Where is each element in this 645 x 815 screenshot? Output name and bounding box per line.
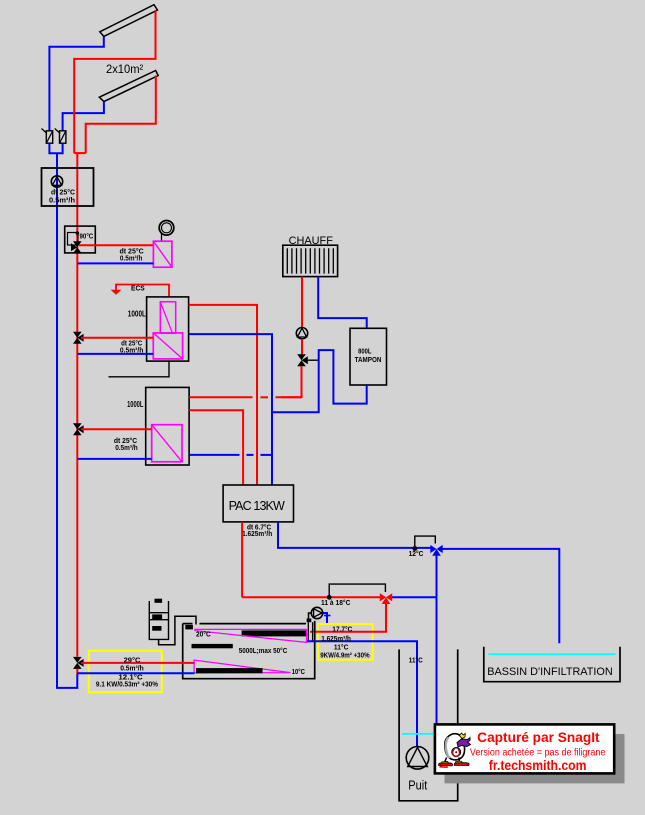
- puit water line cyan: [402, 733, 433, 735]
- ECS pipe red: [116, 285, 169, 297]
- wire blue 12.1C: [77, 672, 194, 674]
- valve V2: [55, 129, 66, 144]
- wire blue T1 return: [78, 353, 154, 355]
- svg-text:1000L: 1000L: [128, 310, 146, 319]
- wire blue pump discharge: [323, 613, 327, 623]
- valve V1: [42, 129, 53, 144]
- ECS shower symbol: [111, 290, 122, 295]
- expansion vessel: [159, 221, 174, 242]
- wire red T2 to PAC: [189, 410, 243, 485]
- bassin water line cyan: [488, 653, 615, 655]
- valve 3way T2: [73, 423, 84, 435]
- wire blue chauff to TAMPON top: [318, 277, 367, 329]
- T1 HX square magenta: [153, 333, 182, 359]
- solar panel 1: [100, 5, 158, 37]
- wire red 29C: [81, 662, 195, 664]
- svg-text:9.1 KW/0.53m² +30%: 9.1 KW/0.53m² +30%: [96, 680, 158, 689]
- wire blue T2 top return: [189, 454, 272, 456]
- wire red panel1: [74, 10, 155, 153]
- tank 5000L black bar 1: [242, 630, 307, 636]
- tank 5000L upper coil magenta: [195, 629, 307, 642]
- tank T2 1000L: [146, 387, 189, 465]
- tank 5000L left port mark: [185, 625, 193, 630]
- svg-text:20°C: 20°C: [196, 630, 211, 639]
- sensor 12C bracket: [412, 536, 435, 551]
- wire red panel2: [86, 76, 156, 154]
- svg-text:Puit: Puit: [408, 779, 427, 793]
- wire red chauff below pump: [301, 339, 303, 355]
- wire red T1 to PAC drop: [189, 305, 257, 485]
- pump chauff: [296, 328, 307, 339]
- valve 3way blue 12C: [430, 545, 442, 556]
- radiator CHAUFF: [283, 245, 338, 276]
- valve 3way chauff: [297, 354, 308, 366]
- sensor 11a18C bracket: [327, 584, 386, 600]
- wire blue tank to puit 11C: [307, 641, 417, 746]
- snagit watermark box: [435, 724, 614, 773]
- wire blue T2 return: [78, 458, 152, 460]
- svg-text:800L: 800L: [358, 346, 372, 355]
- svg-text:PAC 13KW: PAC 13KW: [229, 499, 285, 513]
- wire red 90C to HX1: [79, 244, 153, 246]
- wire red PAC to valve: [242, 596, 380, 598]
- wire blue valve out right: [392, 596, 437, 598]
- svg-text:12°C: 12°C: [409, 550, 424, 558]
- yellow box left: [89, 651, 162, 692]
- heat exchanger HX1: [153, 241, 172, 267]
- valve 3way bottom left: [73, 657, 84, 669]
- svg-text:dt 25°C: dt 25°C: [51, 189, 75, 197]
- buffer mark 2: [152, 614, 162, 619]
- wire red T2 to chauff circuit: [189, 396, 302, 398]
- wire red join: [74, 152, 86, 154]
- buffer component container: [149, 601, 168, 639]
- pump suction pipe black: [307, 613, 313, 642]
- wire blue PAC in down: [278, 522, 431, 548]
- wire red solar supply main drop: [76, 153, 78, 657]
- svg-text:11 à 18°C: 11 à 18°C: [321, 599, 350, 607]
- valve 3way 90C: [71, 231, 82, 253]
- 90C inner rect: [68, 233, 79, 246]
- solar pump P1: [51, 176, 62, 187]
- wire red PAC out down: [241, 522, 243, 597]
- yellow box right: [318, 624, 373, 660]
- buffer pipe to tank: [159, 616, 196, 645]
- buffer mark 1: [155, 599, 163, 603]
- tank 5000L lower coil magenta: [194, 660, 290, 673]
- svg-text:1000L: 1000L: [127, 400, 143, 409]
- tank 5000L black bar 3: [196, 668, 263, 673]
- svg-text:5000L;max 50°C: 5000L;max 50°C: [239, 646, 288, 655]
- wire red chauff supply: [301, 277, 303, 328]
- wire red chauff return down: [282, 366, 302, 397]
- svg-text:fr.techsmith.com: fr.techsmith.com: [489, 757, 587, 773]
- T1 drain pipe: [109, 361, 170, 377]
- bassin d'infiltration container: [484, 647, 620, 682]
- solar panel 2: [99, 71, 158, 102]
- 90C control box: [65, 226, 96, 253]
- svg-text:1.625m³/h: 1.625m³/h: [242, 531, 272, 538]
- svg-text:0.5m³/h: 0.5m³/h: [115, 445, 138, 452]
- wire blue HX1 return: [78, 262, 154, 264]
- wire blue solar return main drop: [57, 153, 77, 688]
- T2 HX square magenta: [152, 425, 182, 462]
- svg-text:dt 25°C: dt 25°C: [121, 340, 142, 348]
- valve 3way T1: [73, 332, 84, 344]
- pump tank 5000L: [311, 607, 322, 618]
- snagit watermark shadow: [445, 734, 625, 783]
- svg-text:ECS: ECS: [131, 284, 145, 293]
- valve link to TAMPON blue: [305, 359, 319, 361]
- wire blue valve down to puit: [436, 553, 438, 724]
- tank T1 1000L: [147, 297, 189, 361]
- PAC box: [223, 485, 293, 522]
- svg-text:90°C: 90°C: [80, 233, 94, 241]
- buffer mark 3: [152, 626, 161, 631]
- svg-text:0.5m³/h: 0.5m³/h: [49, 198, 75, 205]
- wire blue TAMPON bottom staircase: [272, 350, 367, 412]
- puit container: [399, 649, 458, 800]
- svg-text:17.7°C: 17.7°C: [332, 625, 353, 634]
- svg-text:2x10m²: 2x10m²: [106, 62, 143, 76]
- tank TAMPON 800L: [350, 328, 387, 385]
- wire blue join below valves: [49, 143, 62, 153]
- wire blue valve to bassin: [443, 549, 560, 643]
- wire blue panel1 to valve V1: [49, 36, 103, 130]
- pump puit: [406, 747, 429, 770]
- wire red below bottom valve: [76, 669, 78, 675]
- tank 5000L walls: [183, 621, 315, 679]
- valve 3way red 11-18C: [380, 593, 392, 604]
- wire red valve down to tank: [310, 601, 386, 632]
- svg-text:9KW/4.9m² +30%: 9KW/4.9m² +30%: [320, 650, 370, 659]
- wire blue T1 to PAC drop: [189, 334, 272, 485]
- solar pump box: [42, 168, 94, 206]
- wire blue panel2 to valve V2: [63, 102, 104, 131]
- tank 5000L black bar 2: [192, 644, 233, 648]
- svg-text:11°C: 11°C: [409, 657, 423, 665]
- T1 coil top magenta: [160, 302, 175, 334]
- svg-text:dt 25°C: dt 25°C: [120, 248, 144, 256]
- svg-text:Capturé par SnagIt: Capturé par SnagIt: [477, 730, 600, 745]
- svg-text:0.5m³/h: 0.5m³/h: [120, 664, 144, 673]
- wire red T2 charge: [81, 428, 152, 430]
- wire red T1 charge: [81, 337, 153, 339]
- svg-text:TAMPON: TAMPON: [355, 355, 382, 364]
- svg-text:10°C: 10°C: [292, 667, 306, 676]
- svg-text:BASSIN D'INFILTRATION: BASSIN D'INFILTRATION: [487, 666, 612, 678]
- svg-text:0.5m³/h: 0.5m³/h: [120, 256, 142, 263]
- snagit logo mascot: [439, 733, 471, 768]
